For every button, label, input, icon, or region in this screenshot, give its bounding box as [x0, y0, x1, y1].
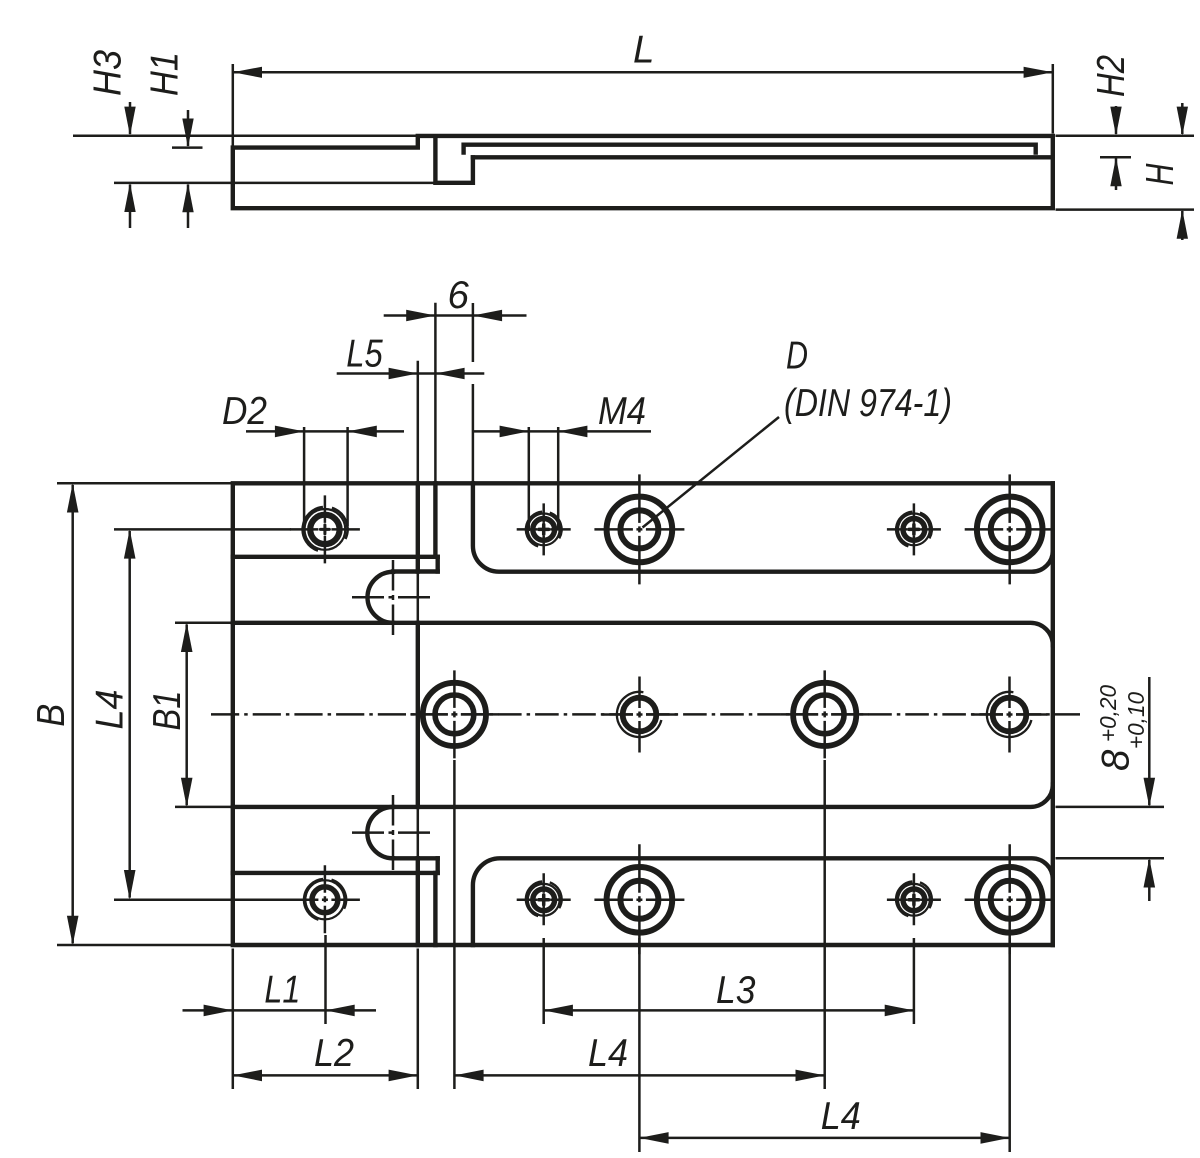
side view: extension line H2 bottom	[1100, 156, 1131, 159]
hole D2 countersunk bottom-left	[290, 865, 360, 933]
svg-text:L: L	[633, 29, 654, 72]
svg-text:6: 6	[448, 274, 470, 317]
plan view: bottom-right pocket outline	[473, 858, 1053, 945]
side view: saddle ledge line	[473, 155, 1053, 159]
side view: vertical extension lines for L	[232, 64, 235, 146]
svg-text:B1: B1	[146, 691, 189, 731]
svg-text:L4: L4	[588, 1032, 628, 1075]
svg-text:H: H	[1139, 163, 1182, 185]
hole counterbore D top row 3	[594, 474, 684, 584]
plan view: plate outer rectangle	[233, 483, 1053, 945]
dimension L2	[417, 573, 420, 857]
side view: extension line bottom level	[1056, 208, 1195, 211]
svg-text:L1: L1	[264, 969, 300, 1012]
svg-text:L4: L4	[821, 1095, 861, 1138]
svg-text:L5: L5	[346, 332, 383, 375]
hole threaded middle row 4	[972, 677, 1048, 753]
dimension H3	[129, 102, 132, 134]
dimension B	[57, 482, 231, 485]
plan view: bottom slot left edge	[416, 858, 420, 945]
dimension H2	[1115, 106, 1118, 134]
plan view: rail bottom edge with corner	[233, 785, 1053, 807]
dimension B1	[175, 622, 231, 625]
plan view: rail top edge with corner	[233, 623, 1053, 645]
svg-text:B: B	[30, 704, 73, 727]
hole M4 countersunk top row 4	[887, 503, 941, 555]
dimension L4 left	[114, 528, 291, 531]
svg-text:D: D	[786, 335, 808, 378]
dimension H	[1181, 103, 1184, 134]
dimension 6 (slot tongue width)	[434, 303, 437, 487]
hole threaded middle row 2	[602, 677, 678, 753]
hole M4 countersunk bottom row 4	[887, 873, 941, 925]
plan view: relief bore centrelines bottom	[352, 831, 431, 834]
svg-text:H2: H2	[1090, 55, 1133, 97]
plan view: top step	[436, 557, 440, 572]
hole through bore middle row 3	[781, 670, 869, 758]
plan view: rail left end edge	[416, 623, 420, 807]
dimension M4	[528, 427, 531, 531]
dimension L1	[232, 949, 235, 1090]
svg-text:+0,10: +0,10	[1123, 692, 1149, 749]
svg-text:M4: M4	[598, 390, 646, 433]
hole through bore middle row 1	[410, 670, 498, 758]
plan view: bottom step	[436, 858, 440, 873]
plan view: top-right pocket outline	[473, 483, 1053, 571]
plan view: main centreline	[211, 713, 448, 716]
dimension L4 bottom	[638, 938, 641, 1152]
dimension L	[233, 71, 1053, 74]
plan view: top slot left edge	[416, 483, 420, 571]
hole M4 countersunk top row 2	[517, 503, 571, 555]
side view: extension line top level	[73, 134, 417, 137]
svg-text:H1: H1	[144, 52, 187, 96]
svg-text:D2: D2	[222, 390, 267, 433]
svg-text:H3: H3	[87, 49, 130, 96]
plan view: top relief bore (half circle)	[368, 572, 394, 623]
plan view: bottom relief bore (half circle)	[367, 807, 393, 858]
dimension L4 middle	[453, 760, 456, 1089]
plan view: bottom-left flange top edge	[233, 871, 438, 875]
svg-text:+0,20: +0,20	[1095, 685, 1121, 742]
dimension H1	[187, 110, 190, 146]
svg-text:8: 8	[1094, 749, 1137, 771]
plan view: top-left flange bottom edge	[233, 555, 438, 559]
dimension D2	[303, 427, 306, 528]
svg-text:(DIN 974-1): (DIN 974-1)	[784, 382, 952, 425]
dimension L5	[417, 361, 420, 486]
svg-text:L4: L4	[89, 690, 132, 730]
plan view: bottom slot right edge	[433, 873, 437, 945]
hole M4 countersunk bottom row 2	[517, 873, 571, 925]
side view: cage strip line	[464, 145, 1036, 153]
plan view: top slot right edge	[433, 483, 437, 557]
dimension L3	[542, 938, 545, 1024]
side view: T-notch pocket	[435, 137, 473, 183]
plan view: relief bore centrelines top	[352, 596, 431, 599]
side view: extension line notch bottom level	[114, 182, 434, 185]
hole counterbore D top row 5	[965, 474, 1055, 584]
svg-text:L2: L2	[314, 1032, 354, 1075]
side view: base plate outline	[233, 136, 1053, 208]
svg-text:L3: L3	[716, 969, 756, 1012]
dimension 8 +0,20/+0,10	[1056, 806, 1165, 809]
hole D2 countersunk top-left	[290, 495, 360, 563]
hole counterbore D bottom row 3	[594, 844, 684, 954]
side view: extension line H1 top level	[172, 146, 203, 149]
hole counterbore D bottom row 5	[965, 844, 1055, 954]
